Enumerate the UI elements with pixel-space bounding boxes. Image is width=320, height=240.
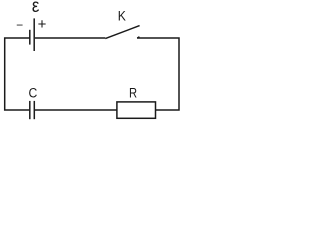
svg-text:K: K [118,8,126,24]
svg-text:+: + [38,16,47,33]
svg-text:−: − [16,18,23,32]
svg-text:C: C [29,85,38,101]
svg-text:ε: ε [32,0,39,16]
svg-text:R: R [129,85,137,100]
